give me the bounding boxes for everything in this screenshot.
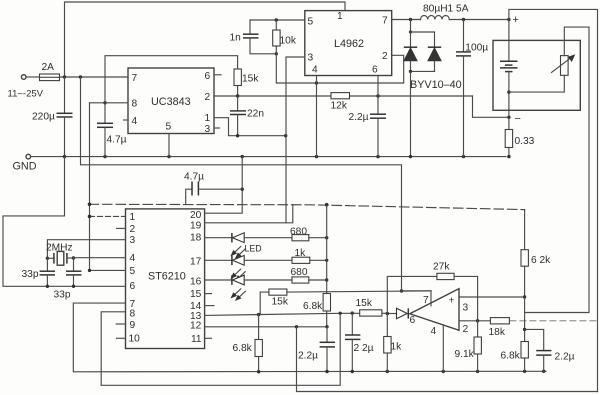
resistor 12k bbox=[331, 93, 350, 112]
capacitor 220u bbox=[32, 77, 73, 157]
svg-text:1: 1 bbox=[205, 113, 211, 124]
svg-text:20: 20 bbox=[190, 210, 202, 221]
svg-text:17: 17 bbox=[190, 257, 202, 268]
LED 3 bbox=[231, 275, 292, 300]
wire ST6210 pin 12 net bbox=[205, 325, 598, 391]
svg-text:1n: 1n bbox=[230, 33, 241, 44]
resistor 15k at UC3843 pin 6 bbox=[234, 69, 259, 96]
wire +V top rail from fuse node over the top to L4962 pin 1 bbox=[65, 2, 346, 77]
svg-text:27k: 27k bbox=[433, 262, 450, 273]
svg-text:680: 680 bbox=[291, 267, 308, 278]
svg-text:1k: 1k bbox=[295, 248, 307, 259]
wire L4962 pin 4 to ground rail bbox=[316, 76, 318, 157]
svg-text:9: 9 bbox=[130, 320, 136, 331]
svg-text:6: 6 bbox=[410, 315, 416, 326]
op-amp comparator bbox=[410, 289, 469, 337]
svg-text:2: 2 bbox=[382, 51, 388, 62]
svg-text:6: 6 bbox=[205, 71, 211, 82]
capacitor 4.7u (timing, horizontal) bbox=[184, 172, 242, 205]
svg-text:100µ: 100µ bbox=[465, 43, 488, 54]
svg-text:4.7µ: 4.7µ bbox=[107, 135, 127, 146]
wire ST6210 pin 20 to ground rail bbox=[205, 157, 244, 214]
resistor 6.8k (LED bus) bbox=[303, 294, 331, 327]
svg-text:7: 7 bbox=[382, 16, 388, 27]
resistor 6.8k (right) bbox=[501, 342, 529, 372]
wire ST6210 pin 10 stub bbox=[117, 337, 126, 339]
svg-text:GND: GND bbox=[13, 161, 37, 173]
capacitor 33p left bbox=[22, 258, 56, 288]
crystal 2MHz bbox=[46, 243, 75, 266]
fuse 2A bbox=[40, 62, 129, 81]
resistor 15k at comparator input bbox=[356, 298, 382, 316]
svg-text:2.2µ: 2.2µ bbox=[555, 352, 575, 363]
svg-text:BYV10–40: BYV10–40 bbox=[410, 79, 462, 91]
LED 1 bbox=[231, 233, 292, 258]
svg-text:33p: 33p bbox=[54, 290, 71, 301]
svg-text:2: 2 bbox=[130, 224, 136, 235]
wire ST6210 pin 1 (dashed) to ground loop bbox=[88, 215, 126, 219]
resistor 0.33 current shunt bbox=[505, 117, 534, 158]
svg-text:1: 1 bbox=[130, 212, 136, 223]
wire UC3843 pin 6 stub bbox=[214, 74, 221, 76]
capacitor 2.2u (right) bbox=[525, 329, 575, 371]
wire UC3843 pin 2 feedback line with current sense to battery minus bbox=[214, 94, 509, 117]
svg-text:+: + bbox=[449, 296, 455, 307]
capacitor 2.2u (left) bbox=[298, 327, 335, 372]
svg-text:18: 18 bbox=[190, 233, 202, 244]
svg-text:6.8k: 6.8k bbox=[303, 301, 323, 312]
wire LED common bus bbox=[326, 205, 328, 294]
svg-text:2A: 2A bbox=[42, 62, 55, 73]
svg-text:0.33: 0.33 bbox=[515, 136, 535, 147]
svg-text:6 2k: 6 2k bbox=[531, 255, 551, 266]
wire L4962 pin 2 feedback to 10k divider bbox=[276, 54, 403, 85]
svg-text:5: 5 bbox=[166, 122, 172, 133]
wire UC3843 pin 5 to ground rail bbox=[168, 134, 170, 157]
wire ST6210 pin 16 line bbox=[205, 279, 232, 281]
capacitor 22n bbox=[230, 96, 264, 136]
svg-text:15k: 15k bbox=[272, 297, 289, 308]
svg-text:4: 4 bbox=[132, 116, 138, 127]
wire op-amp pin 2 line with 18k bbox=[459, 319, 598, 322]
capacitor 100u bbox=[456, 20, 488, 157]
wire +V distribution rail to op-amp supply bbox=[81, 77, 432, 306]
svg-text:9.1k: 9.1k bbox=[455, 349, 475, 360]
wire bottom rail A with pin 7 riser bbox=[73, 303, 546, 373]
svg-text:18k: 18k bbox=[489, 327, 506, 338]
resistor 1k (LED row) bbox=[292, 248, 328, 263]
svg-text:ST6210: ST6210 bbox=[148, 271, 186, 283]
svg-text:15k: 15k bbox=[242, 74, 259, 85]
node battery plus and outer loop wire bbox=[509, 9, 598, 391]
wire ST6210 pin 2 stub bbox=[117, 227, 126, 229]
wire ST6210 pin 19 to ground bus bbox=[205, 205, 293, 223]
wire ST6210 pin 18 line bbox=[205, 237, 232, 239]
svg-text:16: 16 bbox=[190, 277, 202, 288]
IC L4962 bbox=[305, 11, 392, 76]
diode BYV10-40 pair bbox=[404, 20, 462, 159]
IC ST6210 bbox=[126, 209, 205, 349]
svg-text:3: 3 bbox=[205, 124, 211, 135]
svg-text:4: 4 bbox=[312, 65, 318, 76]
rheostat (variable resistor) bbox=[509, 27, 589, 312]
capacitor 2.2u (middle) bbox=[345, 313, 374, 371]
wire ST6210 pin 9 stub bbox=[116, 323, 125, 325]
wire bottom rail B with pin 8 riser and pin 13 riser bbox=[101, 312, 340, 386]
wire op-amp pin 4 to rail A bbox=[442, 325, 444, 371]
capacitor 33p right bbox=[54, 258, 82, 301]
svg-text:220µ: 220µ bbox=[32, 112, 55, 123]
svg-text:22n: 22n bbox=[247, 109, 264, 120]
wire ST6210 pin 5 to UC3843 pin 8 drop bbox=[88, 269, 126, 272]
resistor 27k feedback bbox=[387, 262, 477, 321]
svg-text:UC3843: UC3843 bbox=[151, 96, 191, 108]
input terminal 11~-25V bbox=[8, 75, 44, 100]
GND terminal and ground rail bbox=[13, 154, 507, 172]
svg-text:7: 7 bbox=[423, 295, 429, 306]
svg-text:7: 7 bbox=[132, 73, 138, 84]
svg-text:L4962: L4962 bbox=[334, 38, 364, 50]
svg-text:10: 10 bbox=[129, 334, 141, 345]
svg-text:3: 3 bbox=[463, 303, 469, 314]
svg-text:LED: LED bbox=[245, 244, 262, 254]
svg-text:11: 11 bbox=[191, 334, 202, 345]
svg-text:8: 8 bbox=[132, 99, 138, 110]
resistor 15k pull-up and supply line to op-amp pin 7 bbox=[260, 289, 431, 315]
svg-text:4.7µ: 4.7µ bbox=[184, 172, 204, 183]
inductor 80uH 1.5A bbox=[392, 4, 511, 22]
wire L4962 pin 5 line bbox=[250, 18, 305, 55]
svg-text:4: 4 bbox=[431, 326, 437, 337]
svg-text:19: 19 bbox=[190, 221, 202, 232]
svg-text:2.2µ: 2.2µ bbox=[298, 351, 318, 362]
wire ST6210 pin 15 stub bbox=[205, 293, 212, 295]
svg-text:15k: 15k bbox=[356, 298, 373, 309]
node fuse output junction bbox=[63, 75, 82, 78]
svg-text:5: 5 bbox=[130, 266, 136, 277]
LED 2 bbox=[231, 255, 292, 280]
svg-text:15: 15 bbox=[190, 289, 202, 300]
diode at comparator output bbox=[386, 308, 416, 326]
svg-text:5: 5 bbox=[308, 17, 314, 28]
wire UC3843 pin 3 stub bbox=[214, 127, 220, 129]
wire op-amp pin 3 (+) to 6.2k node bbox=[459, 295, 526, 298]
wire ST6210 pin 17 line bbox=[205, 259, 232, 261]
wire ST6210 pin 11 stub bbox=[205, 337, 212, 339]
svg-text:33p: 33p bbox=[22, 269, 39, 280]
svg-text:+: + bbox=[513, 14, 519, 26]
capacitor 2.2u at L4962 pin 6 bbox=[349, 76, 387, 157]
resistor 680 upper bbox=[290, 227, 328, 241]
resistor 1k below diode node bbox=[384, 314, 402, 372]
svg-text:3: 3 bbox=[130, 235, 136, 246]
svg-text:6.8k: 6.8k bbox=[233, 343, 253, 354]
resistor 6.8k below pin 13 bbox=[233, 315, 263, 372]
svg-text:2: 2 bbox=[205, 92, 211, 103]
wire UC3843 pin 1 rail to L4962 pin 3 drop bbox=[214, 118, 287, 138]
svg-text:11~-25V: 11~-25V bbox=[8, 89, 44, 100]
svg-text:−: − bbox=[515, 113, 521, 125]
svg-text:2.2µ: 2.2µ bbox=[349, 112, 369, 123]
wire ST6210 pin 13 line to comparator bbox=[205, 311, 388, 316]
svg-text:6: 6 bbox=[130, 281, 136, 292]
battery enclosure box bbox=[493, 40, 580, 110]
svg-text:12k: 12k bbox=[331, 101, 348, 112]
svg-text:8: 8 bbox=[130, 309, 136, 320]
capacitor 1n bbox=[230, 20, 277, 54]
wire ST6210 pin 4 to crystal right bbox=[74, 257, 126, 259]
svg-text:2: 2 bbox=[463, 324, 469, 335]
resistor 680 lower bbox=[291, 267, 329, 283]
wire comparator reference node bbox=[523, 297, 526, 342]
svg-text:680: 680 bbox=[290, 227, 307, 238]
svg-text:3: 3 bbox=[308, 53, 314, 64]
svg-text:10k: 10k bbox=[280, 36, 297, 47]
svg-text:2 2µ: 2 2µ bbox=[354, 343, 374, 354]
capacitor 4.7u at UC3843 pin 8 bbox=[97, 101, 127, 157]
IC UC3843 bbox=[128, 68, 214, 135]
svg-text:6: 6 bbox=[372, 65, 378, 76]
svg-text:1k: 1k bbox=[391, 342, 403, 353]
resistor 9.1k bbox=[455, 321, 482, 372]
wire L4962 pin 3 to ground bus below bbox=[286, 57, 305, 223]
svg-text:80µH1 5A: 80µH1 5A bbox=[423, 4, 469, 15]
wire ST6210 pin 14 stub bbox=[205, 305, 214, 307]
wire UC3843 pin 4 stub bbox=[124, 119, 129, 121]
resistor 6.2k bbox=[521, 210, 551, 297]
svg-text:6.8k: 6.8k bbox=[501, 351, 521, 362]
battery pack symbol bbox=[500, 20, 521, 126]
wire UC3843 top loop to 15k bbox=[105, 56, 238, 103]
wire UC3843 pin 8 line and long drop to ST6210 pin 5 bbox=[90, 103, 129, 271]
svg-text:4: 4 bbox=[130, 253, 136, 264]
svg-text:2MHz: 2MHz bbox=[46, 243, 73, 254]
resistor 10k bbox=[273, 20, 297, 54]
svg-text:1: 1 bbox=[337, 11, 343, 22]
wire ground distribution bus (dashed look) across middle bbox=[88, 203, 525, 210]
wire ST6210 pin 3 to crystal left bbox=[46, 240, 126, 260]
wire ground left loop to crystal caps bbox=[3, 157, 126, 287]
resistor 18k bbox=[489, 318, 510, 338]
svg-text:12: 12 bbox=[190, 321, 202, 332]
